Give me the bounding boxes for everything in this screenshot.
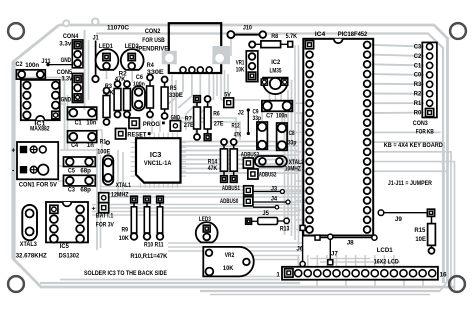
svg-text:ADBUS2: ADBUS2 [259, 171, 277, 178]
svg-text:C3: C3 [68, 186, 75, 193]
svg-text:C5: C5 [68, 167, 75, 174]
svg-text:KB = 4X4 KEY BOARD: KB = 4X4 KEY BOARD [384, 142, 443, 149]
svg-text:68p: 68p [80, 187, 91, 194]
svg-text:47K: 47K [208, 165, 218, 172]
svg-text:10MHZ: 10MHZ [285, 165, 301, 172]
svg-text:LCD1: LCD1 [377, 247, 393, 254]
svg-text:IC5: IC5 [60, 243, 69, 250]
svg-text:BATT.1: BATT.1 [96, 212, 114, 219]
svg-text:C0: C0 [414, 72, 422, 79]
svg-text:CON3: CON3 [413, 120, 428, 127]
svg-text:C1: C1 [414, 62, 422, 69]
svg-text:10E: 10E [415, 236, 426, 243]
svg-text:R9: R9 [122, 227, 129, 234]
svg-text:R3: R3 [414, 81, 422, 88]
svg-text:J5: J5 [262, 210, 269, 217]
svg-text:16X2 LCD: 16X2 LCD [374, 258, 399, 265]
svg-text:MAX882: MAX882 [30, 125, 50, 132]
svg-text:VNC1L-1A: VNC1L-1A [144, 160, 172, 167]
svg-text:ADBUS0: ADBUS0 [220, 198, 239, 205]
svg-text:R0: R0 [414, 109, 422, 116]
svg-text:R2: R2 [414, 91, 422, 98]
svg-text:100n: 100n [276, 113, 288, 120]
svg-text:J1-J11 = JUMPER: J1-J11 = JUMPER [388, 180, 432, 187]
svg-text:R10,R11=47K: R10,R11=47K [130, 253, 167, 260]
svg-text:10K: 10K [119, 235, 129, 242]
svg-text:R15: R15 [414, 227, 426, 234]
svg-text:47K: 47K [234, 132, 242, 139]
svg-text:R10 R11: R10 R11 [144, 242, 164, 249]
svg-text:ADBUS1: ADBUS1 [222, 185, 240, 192]
svg-text:XTAL1: XTAL1 [116, 182, 131, 189]
svg-text:PIC18F452: PIC18F452 [338, 31, 368, 38]
svg-text:C2: C2 [414, 53, 422, 60]
svg-text:VR2: VR2 [225, 252, 235, 259]
svg-text:J10: J10 [243, 25, 252, 32]
svg-text:GND: GND [61, 57, 72, 64]
svg-text:33p: 33p [253, 115, 262, 122]
svg-text:1n: 1n [87, 142, 94, 149]
svg-text:C8: C8 [289, 130, 295, 137]
svg-text:C2: C2 [16, 61, 23, 68]
svg-text:27E: 27E [214, 120, 224, 127]
svg-text:330E: 330E [169, 92, 184, 99]
svg-text:+: + [11, 148, 15, 155]
svg-text:GND: GND [61, 96, 72, 103]
svg-text:5.7K: 5.7K [286, 33, 298, 40]
svg-text:100n: 100n [25, 62, 39, 69]
svg-text:IC2: IC2 [271, 59, 280, 66]
svg-text:12MHZ: 12MHZ [111, 191, 129, 198]
svg-text:DS1302: DS1302 [59, 252, 80, 259]
svg-text:10K: 10K [236, 66, 245, 73]
svg-text:IC3: IC3 [150, 152, 162, 159]
svg-text:LED1: LED1 [99, 43, 113, 50]
svg-text:16: 16 [440, 272, 447, 279]
svg-text:SOLDER IC3 TO THE BACK SIDE: SOLDER IC3 TO THE BACK SIDE [84, 270, 167, 277]
svg-text:LM35: LM35 [270, 68, 282, 75]
svg-text:CON2: CON2 [145, 28, 161, 35]
svg-text:CON1 FOR 5V: CON1 FOR 5V [19, 182, 58, 189]
svg-text:3.3v: 3.3v [59, 41, 71, 48]
svg-text:100E: 100E [97, 148, 111, 155]
svg-text:R13: R13 [280, 226, 290, 233]
svg-text:33p: 33p [288, 139, 297, 146]
svg-text:3.3V: 3.3V [62, 75, 74, 82]
svg-text:R6: R6 [213, 111, 220, 118]
svg-text:CON4: CON4 [63, 33, 79, 40]
svg-text:J2: J2 [238, 109, 244, 116]
svg-text:XTAL3: XTAL3 [20, 241, 37, 248]
svg-text:C4: C4 [71, 142, 78, 149]
svg-text:C7: C7 [266, 113, 273, 120]
svg-text:J7: J7 [331, 251, 338, 258]
svg-text:FOR 3V: FOR 3V [96, 222, 115, 229]
svg-text:FOR USB: FOR USB [142, 37, 165, 44]
svg-text:J1: J1 [93, 34, 99, 41]
svg-text:J8: J8 [347, 239, 354, 246]
svg-text:J9: J9 [395, 216, 402, 223]
svg-text:C1: C1 [75, 119, 82, 126]
svg-text:10K: 10K [223, 265, 234, 272]
svg-text:PROG: PROG [143, 121, 160, 128]
svg-text:1: 1 [276, 271, 280, 278]
svg-text:R12: R12 [232, 122, 240, 129]
svg-text:C3: C3 [414, 43, 422, 50]
svg-text:R8: R8 [271, 33, 278, 40]
svg-text:11070C: 11070C [107, 25, 129, 32]
svg-text:FOR KB: FOR KB [416, 128, 434, 135]
svg-text:C6: C6 [136, 74, 143, 81]
svg-text:10n: 10n [86, 119, 96, 126]
svg-text:32.678KHZ: 32.678KHZ [16, 252, 47, 259]
svg-text:68p: 68p [80, 167, 91, 174]
svg-text:R5: R5 [170, 85, 177, 92]
svg-text:J11: J11 [41, 58, 51, 65]
svg-text:IC4: IC4 [315, 31, 326, 38]
svg-text:R1: R1 [414, 100, 422, 107]
